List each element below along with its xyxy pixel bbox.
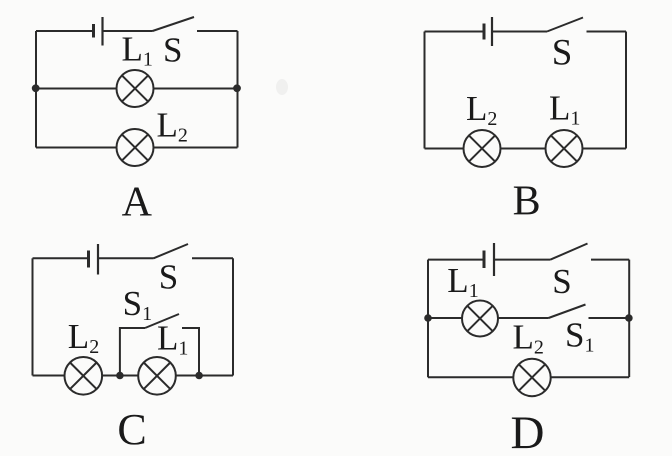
svg-text:C: C: [117, 405, 146, 454]
wire B left vertical: [424, 32, 426, 149]
svg-text:L2: L2: [68, 317, 99, 358]
wire B right vertical: [625, 32, 627, 149]
switch S (open) circuit C: [154, 244, 234, 258]
wire D right vertical: [628, 260, 630, 377]
svg-text:L1: L1: [157, 318, 188, 359]
wire A left vertical: [35, 31, 37, 148]
node junction dot D left: [424, 314, 432, 322]
svg-text:S1: S1: [123, 284, 152, 325]
wire C bottom far-left: [33, 375, 65, 377]
lamp L2 circuit D: [513, 359, 550, 396]
lamp L1 circuit D: [462, 301, 498, 337]
wire B top-left: [425, 31, 485, 33]
battery (cell) circuit A: [94, 17, 103, 46]
switch S (open) circuit A: [153, 17, 238, 31]
wire D top-left: [428, 259, 484, 261]
wire A battery to switch: [103, 30, 153, 32]
wire C left vertical: [32, 258, 34, 375]
lamp L2 circuit B: [464, 130, 501, 167]
wire D battery to switch: [494, 259, 551, 261]
svg-text:L1: L1: [447, 261, 478, 302]
wire C bypass branch left vertical: [120, 328, 145, 376]
wire C top-left: [33, 257, 89, 259]
lamp L2 circuit C: [65, 357, 103, 395]
svg-text:S: S: [159, 257, 178, 296]
svg-text:L1: L1: [549, 88, 580, 129]
node junction dot C left: [116, 372, 124, 380]
lamp L1 circuit B: [546, 130, 583, 167]
svg-text:L2: L2: [157, 106, 188, 147]
switch S (open) circuit D: [551, 244, 630, 260]
svg-text:A: A: [122, 180, 153, 226]
battery (cell) circuit B: [484, 17, 492, 46]
node junction dot A right: [233, 84, 241, 92]
wire A bottom right: [154, 147, 238, 149]
wire A middle right: [154, 88, 238, 90]
wire C battery to switch: [98, 257, 154, 259]
svg-text:S: S: [552, 33, 573, 74]
svg-text:S1: S1: [565, 316, 594, 357]
scan smudge artifact: [276, 79, 288, 95]
wire A middle left: [36, 88, 117, 90]
svg-text:B: B: [513, 179, 541, 225]
lamp L2 circuit A: [117, 129, 154, 166]
svg-text:L2: L2: [513, 318, 544, 359]
battery (cell) circuit C: [89, 244, 99, 275]
svg-text:L2: L2: [466, 89, 497, 130]
svg-text:S: S: [163, 30, 182, 69]
wire A top-left (left corner to battery): [36, 30, 94, 32]
wire C lamp L1 to node2: [176, 375, 199, 377]
wire D bottom left: [428, 376, 513, 378]
svg-text:S: S: [552, 262, 571, 301]
wire C lamp L2 to node1: [102, 375, 120, 377]
wire B bottom left: [425, 148, 464, 150]
wire B battery to switch: [492, 31, 547, 33]
wire C node1 to lamp L1: [120, 375, 138, 377]
node junction dot D right: [625, 314, 633, 322]
node junction dot A left: [32, 84, 40, 92]
wire B bottom middle: [501, 148, 546, 150]
wire A bottom left: [36, 147, 117, 149]
svg-text:L1: L1: [122, 30, 153, 71]
lamp L1 circuit A: [117, 70, 154, 107]
battery (cell) circuit D: [484, 243, 494, 276]
switch S1 (open) circuit D: [549, 305, 630, 319]
wire B bottom right: [583, 148, 627, 150]
wire D middle left: [428, 317, 462, 319]
wire D left vertical: [427, 260, 429, 378]
wire A right vertical: [237, 31, 239, 148]
wire C node2 to right edge: [199, 375, 233, 377]
node junction dot C right: [195, 372, 203, 380]
wire D bottom right: [551, 376, 630, 378]
wire C right vertical: [232, 258, 234, 375]
wire D lamp L1 to switch S1: [498, 317, 549, 319]
wire C bypass branch right: [182, 328, 199, 376]
svg-text:D: D: [511, 407, 545, 456]
switch S (open) circuit B: [547, 18, 626, 32]
switch S1 (open) circuit C: [145, 314, 179, 328]
lamp L1 circuit C: [138, 357, 176, 395]
